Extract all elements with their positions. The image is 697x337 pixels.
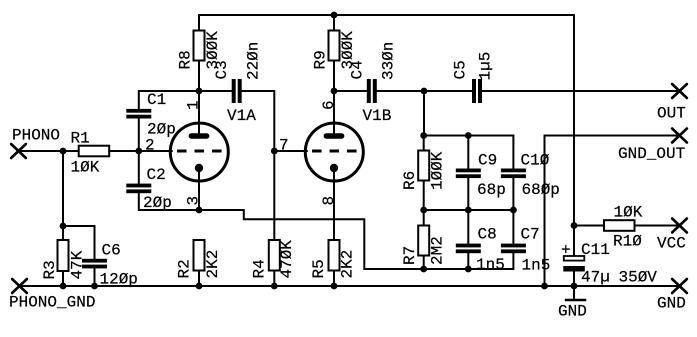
wire R3 bottom stub xyxy=(62,271,64,286)
wire R9 bottom to node B xyxy=(333,61,335,92)
node top-rail/R9 junction xyxy=(331,12,338,19)
wire C8 top stub xyxy=(467,210,469,244)
svg-text:22Øn: 22Øn xyxy=(245,42,263,80)
node R5/ground xyxy=(331,283,338,290)
terminal GND_OUT X xyxy=(672,129,687,143)
resistor R1 10K xyxy=(71,130,110,177)
wire R4 bottom stub xyxy=(273,271,275,287)
wire C3 to V1B grid xyxy=(242,91,275,151)
svg-text:C2: C2 xyxy=(147,166,166,184)
node R2/ground xyxy=(196,283,203,290)
wire C1 top to node A line xyxy=(139,91,232,109)
svg-text:2K2: 2K2 xyxy=(339,250,357,279)
wire R8 top stub xyxy=(198,15,200,31)
node A (V1A plate) xyxy=(196,88,203,95)
node PHONO label xyxy=(12,127,60,145)
resistor R2 2K2 xyxy=(176,240,223,279)
resistor R4 470K xyxy=(251,240,297,279)
node PHONO_GND label xyxy=(9,294,95,312)
resistor R9 300K xyxy=(312,31,358,70)
capacitor C9 68p xyxy=(456,152,506,200)
resistor R3 47K xyxy=(41,240,87,280)
op-amp V1A triode xyxy=(145,100,256,205)
terminal PHONO X xyxy=(11,144,26,158)
svg-text:C6: C6 xyxy=(102,242,121,260)
capacitor C7 1n5 xyxy=(501,226,550,275)
svg-text:1ØØK: 1ØØK xyxy=(429,151,447,190)
svg-text:R5: R5 xyxy=(310,259,328,278)
wire C7 top stub xyxy=(512,210,514,244)
svg-text:1n5: 1n5 xyxy=(522,257,551,275)
svg-text:+: + xyxy=(561,242,571,260)
svg-text:1µ5: 1µ5 xyxy=(477,52,495,81)
wire R1 left stub xyxy=(63,150,79,152)
svg-text:2M2: 2M2 xyxy=(429,236,447,265)
wire ground rail xyxy=(20,285,680,287)
svg-text:1ØK: 1ØK xyxy=(614,204,643,222)
node GND label right xyxy=(657,295,686,313)
resistor R10 10K xyxy=(604,204,643,251)
wire R1 right to grid node xyxy=(109,150,139,152)
terminal OUT X xyxy=(672,84,687,98)
wire C6 branch top xyxy=(63,226,95,259)
svg-text:C1: C1 xyxy=(147,91,166,109)
svg-text:V1A: V1A xyxy=(227,107,256,125)
svg-text:PHONO: PHONO xyxy=(12,127,60,145)
svg-text:35ØV: 35ØV xyxy=(619,269,658,287)
capacitor C4 330n xyxy=(349,42,398,103)
svg-text:C9: C9 xyxy=(478,152,497,170)
node R3/C6 split xyxy=(60,223,67,230)
svg-text:R1: R1 xyxy=(71,130,90,148)
svg-text:33Øn: 33Øn xyxy=(380,42,398,80)
svg-text:1n5: 1n5 xyxy=(476,256,505,274)
wire V1B pin8 cathode to R5 xyxy=(333,168,335,240)
wire C9 bottom stub xyxy=(467,178,469,210)
svg-text:7: 7 xyxy=(279,137,289,155)
resistor R5 2K2 xyxy=(310,240,357,279)
wire input node down to R3 xyxy=(62,151,64,240)
op-amp V1B triode xyxy=(279,100,391,205)
node V1A cathode/R2/feedback xyxy=(196,207,203,214)
svg-text:C3: C3 xyxy=(213,60,231,79)
wire V1A grid entry xyxy=(139,150,172,152)
wire R6 bottom stub xyxy=(423,181,425,211)
wire C2 bottom to cathode line xyxy=(139,193,199,210)
wire node B to C4 xyxy=(334,90,367,92)
wire GND_OUT to ground xyxy=(545,136,680,287)
wire R7 bottom stub xyxy=(423,256,425,270)
node C1/C2/grid junction xyxy=(135,148,142,155)
svg-text:68Øp: 68Øp xyxy=(522,181,560,199)
wire C8 bottom stub xyxy=(467,253,469,269)
wire grid node up to C1 xyxy=(138,119,140,152)
svg-text:R3: R3 xyxy=(41,260,59,279)
svg-text:R2: R2 xyxy=(176,259,194,278)
node PHONO/R1/R3 junction xyxy=(60,148,67,155)
wire PHONO input to R1 node xyxy=(19,150,64,152)
svg-text:R7: R7 xyxy=(401,246,419,265)
svg-text:OUT: OUT xyxy=(657,105,686,123)
node RIAA top/R6 xyxy=(420,132,427,139)
wire C5 to OUT xyxy=(482,90,679,92)
svg-text:R8: R8 xyxy=(177,50,195,69)
wire RIAA middle rail xyxy=(424,209,514,211)
node GND_OUT drop/ground xyxy=(541,283,548,290)
terminal PHONO_GND X xyxy=(12,279,27,293)
svg-text:2K2: 2K2 xyxy=(204,250,222,279)
wire R7 top stub xyxy=(423,210,425,226)
resistor R8 300K xyxy=(177,31,223,70)
node VCC/R10/C11 junction xyxy=(571,222,578,229)
capacitor C1 20p xyxy=(126,91,176,139)
wire V1B pin6 plate xyxy=(333,91,335,133)
svg-text:R1Ø: R1Ø xyxy=(613,233,642,251)
svg-text:47ØK: 47ØK xyxy=(278,240,296,279)
wire R8 bottom to node A xyxy=(198,61,200,92)
wire C6 bottom stub xyxy=(94,268,96,286)
svg-text:8: 8 xyxy=(320,196,338,206)
resistor R7 2M2 xyxy=(401,226,447,266)
wire GND symbol stub xyxy=(573,286,575,299)
svg-text:6: 6 xyxy=(320,100,338,110)
wire RIAA top rail xyxy=(424,136,514,169)
wire C11 top stub xyxy=(573,226,575,257)
svg-text:V1B: V1B xyxy=(363,107,392,125)
wire grid node down to C2 xyxy=(138,151,140,184)
svg-text:C7: C7 xyxy=(521,226,540,244)
capacitor C5 1u5 xyxy=(452,52,495,103)
svg-text:GND_OUT: GND_OUT xyxy=(618,145,685,163)
wire R5 bottom stub xyxy=(333,271,335,287)
svg-text:C11: C11 xyxy=(581,241,610,259)
wire R9 top stub xyxy=(333,15,335,31)
wire C10 bottom stub xyxy=(512,178,514,210)
capacitor C8 1n5 xyxy=(456,226,505,275)
wire V1B grid entry xyxy=(274,150,307,152)
node R7/RIAA bottom xyxy=(420,266,427,273)
node R6/R7 junction xyxy=(420,207,427,214)
node C10/C7 junction xyxy=(510,207,517,214)
terminal GND X right xyxy=(672,279,687,293)
node V1B grid/R4 junction xyxy=(271,148,278,155)
wire C4 to C5 xyxy=(377,90,472,92)
capacitor C10 680p xyxy=(501,152,560,200)
wire feedback cathode to RIAA bottom xyxy=(199,210,513,269)
svg-text:PHONO_GND: PHONO_GND xyxy=(9,294,95,312)
ground symbol xyxy=(558,300,587,321)
node B (V1B plate) xyxy=(331,88,338,95)
wire R2 bottom stub xyxy=(198,271,200,287)
node C8/RIAA bottom xyxy=(465,266,472,273)
node RIAA top/C9 xyxy=(465,132,472,139)
capacitor C3 220n xyxy=(213,42,263,103)
svg-text:R9: R9 xyxy=(312,50,330,69)
wire V1A pin3 cathode xyxy=(198,168,200,210)
capacitor C2 20p xyxy=(126,166,172,212)
capacitor C6 120p xyxy=(82,242,138,289)
svg-text:C5: C5 xyxy=(452,60,470,79)
node C11/ground xyxy=(571,283,578,290)
node OUT label xyxy=(657,105,686,123)
svg-text:VCC: VCC xyxy=(657,235,686,253)
node C9/C8 junction xyxy=(465,207,472,214)
svg-text:1ØK: 1ØK xyxy=(71,159,100,177)
resistor R6 100K xyxy=(401,151,447,191)
wire C9 top stub xyxy=(467,136,469,169)
wire VCC top rail xyxy=(199,14,574,16)
svg-text:68p: 68p xyxy=(477,181,506,199)
node VCC label xyxy=(657,235,686,253)
svg-text:C4: C4 xyxy=(349,60,367,79)
wire output node down to RIAA top xyxy=(423,91,425,136)
terminal VCC X xyxy=(672,219,687,233)
svg-text:R4: R4 xyxy=(251,259,269,278)
wire R10 to VCC terminal xyxy=(635,225,680,227)
svg-text:C8: C8 xyxy=(478,226,497,244)
svg-text:R6: R6 xyxy=(401,171,419,190)
wire R4 top from grid node xyxy=(273,151,275,240)
wire top-rail drop to VCC node xyxy=(573,15,575,226)
wire C11 bottom stub xyxy=(573,272,575,287)
wire R6 top stub xyxy=(423,136,425,151)
svg-text:GND: GND xyxy=(558,303,587,321)
svg-text:GND: GND xyxy=(657,295,686,313)
wire V1A pin1 plate xyxy=(198,91,200,133)
node R4/ground xyxy=(271,283,278,290)
node output junction xyxy=(421,88,428,95)
node C6/ground xyxy=(91,283,98,290)
node GND_OUT label xyxy=(618,145,685,163)
svg-text:47µ: 47µ xyxy=(581,269,610,287)
capacitor C11 47u 350V electrolytic xyxy=(561,241,657,287)
node R3/ground xyxy=(60,283,67,290)
wire VCC node to R10 xyxy=(574,225,604,227)
